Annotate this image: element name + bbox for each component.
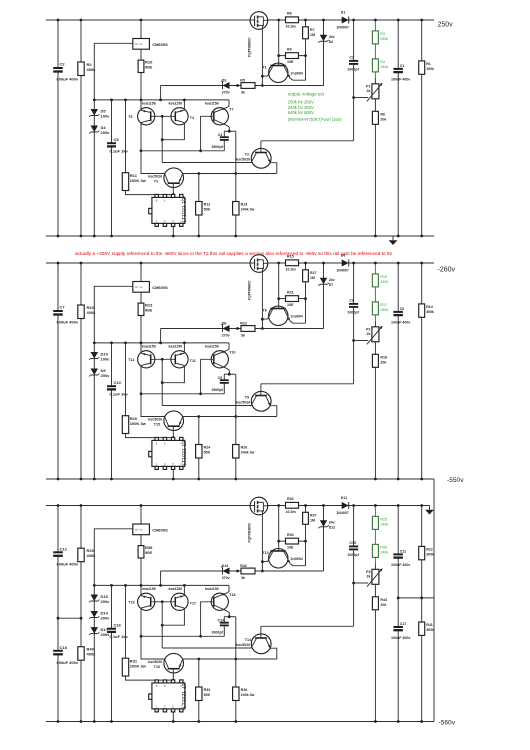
svg-text:50K: 50K bbox=[204, 693, 211, 697]
capacitor C12 600uF 400v bbox=[57, 506, 59, 722]
svg-text:100uF 400v: 100uF 400v bbox=[391, 563, 410, 567]
wire top rail bbox=[46, 262, 434, 264]
ic U2 LT1021-10 voltage reference bbox=[172, 469, 174, 479]
svg-text:R22: R22 bbox=[240, 322, 247, 326]
wire T4 emitter bbox=[183, 343, 185, 353]
svg-text:T2: T2 bbox=[245, 153, 249, 157]
svg-text:T15: T15 bbox=[154, 423, 160, 427]
svg-text:300k: 300k bbox=[426, 628, 434, 632]
transistor T2 ksc5026 error amp bbox=[251, 148, 271, 168]
transistor T8 2n3904 gate clamp bbox=[269, 306, 288, 325]
wire feedback to T2 base bbox=[261, 383, 354, 385]
zener diode D7 24v bbox=[323, 263, 325, 329]
wire emitter supply rail bbox=[94, 584, 229, 586]
svg-text:20k: 20k bbox=[380, 603, 386, 607]
svg-text:240k 3w: 240k 3w bbox=[241, 693, 255, 697]
wire T7 emitter bbox=[227, 585, 229, 592]
svg-text:3900pf: 3900pf bbox=[212, 145, 224, 149]
resistor R21 10E bbox=[279, 298, 306, 300]
svg-text:-260v: -260v bbox=[438, 267, 456, 274]
resistor R22 3k bbox=[241, 326, 255, 332]
wire CM600 input bbox=[94, 529, 133, 586]
wire error line bbox=[162, 162, 251, 164]
svg-text:100K 3w: 100K 3w bbox=[130, 421, 147, 426]
svg-text:R9: R9 bbox=[287, 48, 292, 52]
zener diode D10 100v bbox=[93, 343, 95, 479]
svg-text:1M: 1M bbox=[310, 519, 315, 523]
wire R13 column upper bbox=[235, 617, 237, 687]
capacitor C3 1000pf bbox=[353, 20, 355, 61]
wire T4 base-collector tie bbox=[162, 123, 184, 140]
svg-text:LT1021-10: LT1021-10 bbox=[182, 198, 188, 223]
wire source down bbox=[261, 511, 263, 571]
svg-text:3k: 3k bbox=[241, 576, 245, 580]
svg-text:(R8+R9+R7)/(R7)*vref (10v): (R8+R9+R7)/(R7)*vref (10v) bbox=[288, 117, 342, 122]
svg-text:10.3m: 10.3m bbox=[286, 25, 296, 29]
wire T7 base bbox=[201, 602, 214, 637]
capacitor C2 600uF 400v bbox=[57, 20, 59, 236]
svg-text:1N4007: 1N4007 bbox=[336, 26, 349, 30]
capacitor C5 0.1uF 1kv bbox=[111, 100, 113, 236]
svg-text:250v: 250v bbox=[438, 21, 454, 28]
wire emitter return line bbox=[183, 658, 277, 660]
svg-text:ksc5026: ksc5026 bbox=[148, 660, 162, 664]
transistor T14 ksc5026 error amp bbox=[251, 634, 271, 654]
wire output sense corner bbox=[160, 329, 162, 343]
svg-text:1N4007: 1N4007 bbox=[336, 511, 349, 515]
svg-text:T4: T4 bbox=[190, 116, 194, 120]
svg-text:100v: 100v bbox=[101, 357, 111, 362]
svg-text:300k: 300k bbox=[426, 310, 434, 314]
wire error line bbox=[162, 647, 251, 649]
svg-text:R13: R13 bbox=[241, 203, 248, 207]
svg-text:CM600S: CM600S bbox=[152, 285, 168, 290]
wire source down bbox=[261, 25, 263, 85]
svg-text:3900pf: 3900pf bbox=[212, 388, 224, 392]
wire top rail bbox=[46, 19, 434, 21]
ground bbox=[429, 506, 431, 510]
resistor R34 10E bbox=[279, 540, 306, 542]
svg-text:200v: 200v bbox=[101, 373, 111, 378]
svg-text:R27: R27 bbox=[310, 271, 317, 275]
svg-text:R22: R22 bbox=[426, 548, 433, 552]
svg-text:T11: T11 bbox=[190, 359, 196, 363]
svg-text:output voltage set: output voltage set bbox=[288, 92, 325, 97]
svg-text:540k for 560V: 540k for 560V bbox=[288, 110, 314, 115]
wire base node down to error line bbox=[161, 359, 163, 405]
svg-text:T13: T13 bbox=[262, 551, 268, 555]
resistor R19 240k set bbox=[374, 263, 376, 274]
mosfet M1 FQPF8N80C bbox=[250, 12, 268, 30]
wire T6/T4 base tie bbox=[151, 358, 176, 360]
svg-text:240k: 240k bbox=[380, 65, 388, 69]
wire emitter return line bbox=[183, 416, 277, 418]
svg-text:C16: C16 bbox=[114, 623, 122, 628]
svg-text:240k 3w: 240k 3w bbox=[241, 208, 255, 212]
transistor T11 ksa1156 bbox=[171, 351, 188, 368]
svg-text:24v: 24v bbox=[329, 278, 335, 282]
svg-text:C2: C2 bbox=[60, 61, 66, 66]
wire CM600 input bbox=[94, 43, 133, 100]
svg-text:Vin−Vo: Vin−Vo bbox=[135, 529, 143, 532]
resistor R36 240k 3w bbox=[233, 687, 239, 701]
svg-text:Vin−Vo: Vin−Vo bbox=[135, 286, 143, 289]
svg-text:240k for 250V: 240k for 250V bbox=[288, 105, 314, 110]
svg-text:R8: R8 bbox=[287, 12, 292, 16]
resistor R30 240k set bbox=[374, 529, 376, 544]
svg-text:T9: T9 bbox=[245, 396, 249, 400]
resistor R38 90E bbox=[140, 535, 142, 586]
svg-text:T3: T3 bbox=[154, 180, 158, 184]
diode D1 1N4007 bbox=[342, 17, 349, 24]
svg-text:T19: T19 bbox=[128, 601, 134, 605]
transistor T3 ksc5026 bbox=[164, 168, 184, 188]
capacitor C14 3900pf bbox=[223, 617, 225, 623]
svg-text:C3: C3 bbox=[349, 56, 354, 60]
svg-text:-560v: -560v bbox=[439, 720, 456, 727]
svg-text:240k: 240k bbox=[380, 280, 388, 284]
svg-text:C1: C1 bbox=[400, 64, 405, 68]
svg-text:C6: C6 bbox=[400, 307, 405, 311]
svg-text:ksa1156: ksa1156 bbox=[169, 101, 183, 105]
svg-text:-550v: -550v bbox=[447, 477, 464, 484]
wire base node down to error line bbox=[161, 602, 163, 648]
svg-text:270v: 270v bbox=[222, 91, 230, 95]
transistor T15 ksc5026 bbox=[164, 411, 184, 431]
svg-text:FQPF8N80C: FQPF8N80C bbox=[247, 522, 251, 542]
svg-text:FQPF8N80C: FQPF8N80C bbox=[247, 37, 251, 57]
transistor T9 ksc5026 error amp bbox=[251, 391, 271, 411]
wire error line bbox=[162, 405, 251, 407]
svg-text:600uF 400v: 600uF 400v bbox=[57, 562, 79, 567]
resistor R5 3k bbox=[241, 83, 255, 89]
capacitor C16 0.1uF 1kv bbox=[111, 585, 113, 721]
resistor R24 50K bbox=[198, 417, 200, 445]
wire R13 column upper bbox=[235, 131, 237, 201]
resistor R33 50K bbox=[198, 659, 200, 687]
svg-text:R17: R17 bbox=[380, 303, 387, 307]
resistor R8 10.3m bbox=[286, 17, 299, 23]
svg-text:3900pf: 3900pf bbox=[212, 630, 224, 634]
svg-text:D8: D8 bbox=[222, 322, 227, 326]
wire right divider midpoint to -550v bus bbox=[398, 597, 434, 599]
svg-text:C11: C11 bbox=[400, 550, 406, 554]
wire T6 collector to T3 base bbox=[141, 366, 165, 417]
svg-text:100K 3w: 100K 3w bbox=[130, 178, 147, 183]
wire emitter supply rail bbox=[94, 99, 229, 101]
wire R11 to reference bbox=[126, 191, 174, 195]
svg-text:10E: 10E bbox=[287, 546, 294, 550]
transistor T7 ksa1156 bbox=[211, 108, 228, 125]
svg-text:CM600S: CM600S bbox=[152, 42, 168, 47]
svg-text:ksa1156: ksa1156 bbox=[205, 587, 219, 591]
capacitor C15 1000pf bbox=[353, 506, 355, 547]
svg-text:D6: D6 bbox=[341, 254, 346, 258]
svg-text:200v: 200v bbox=[101, 616, 111, 621]
wire T6 collector to T3 base bbox=[141, 123, 165, 174]
resistor R43 20k bbox=[374, 584, 376, 597]
svg-text:R6: R6 bbox=[380, 112, 385, 116]
wire T7 base line bbox=[141, 635, 224, 637]
wire output sense corner bbox=[160, 571, 162, 585]
transistor T19 ksa1156 bbox=[140, 585, 142, 596]
svg-text:R42: R42 bbox=[240, 564, 247, 568]
resistor R22 300k bbox=[421, 506, 423, 722]
resistor R12 50K bbox=[198, 174, 200, 202]
resistor R11 100K 3w bbox=[125, 100, 127, 173]
wire T4 emitter bbox=[183, 100, 185, 110]
svg-text:3k: 3k bbox=[241, 91, 245, 95]
svg-text:100v: 100v bbox=[101, 114, 111, 119]
capacitor C17 100uF 400v bbox=[393, 627, 404, 630]
svg-text:D7: D7 bbox=[329, 283, 334, 287]
svg-text:2n3904: 2n3904 bbox=[291, 557, 303, 561]
svg-text:FQPF8N80C: FQPF8N80C bbox=[247, 280, 251, 300]
wire T7 base line bbox=[141, 393, 224, 395]
svg-text:2n3904: 2n3904 bbox=[291, 71, 303, 75]
svg-text:100uF 400v: 100uF 400v bbox=[391, 78, 410, 82]
ic U3 LT1021-10 voltage reference bbox=[172, 712, 174, 722]
wire T7 collector bbox=[227, 611, 230, 617]
capacitor C9 3900pf bbox=[223, 374, 225, 380]
svg-text:R36: R36 bbox=[241, 688, 248, 692]
svg-text:ksc5026: ksc5026 bbox=[236, 157, 250, 161]
resistor R26 240k 3w bbox=[233, 445, 239, 459]
wire CM600 input bbox=[94, 286, 133, 343]
svg-text:Vin−Vo: Vin−Vo bbox=[135, 43, 143, 46]
svg-text:270v: 270v bbox=[222, 334, 230, 338]
svg-text:10.3m: 10.3m bbox=[286, 510, 296, 514]
svg-text:T1: T1 bbox=[262, 65, 266, 69]
svg-text:100uF 400v: 100uF 400v bbox=[391, 636, 410, 640]
svg-text:R43: R43 bbox=[380, 598, 387, 602]
svg-text:P1: P1 bbox=[366, 84, 370, 88]
wire feedback to T2 base bbox=[261, 140, 354, 142]
resistor R25 240k set bbox=[374, 506, 376, 517]
wire source down bbox=[261, 268, 263, 328]
svg-text:2k: 2k bbox=[367, 332, 371, 336]
svg-text:LT1021-10: LT1021-10 bbox=[182, 441, 188, 466]
svg-text:D2: D2 bbox=[329, 40, 334, 44]
wire R11 to reference bbox=[126, 676, 174, 680]
svg-text:C5: C5 bbox=[114, 137, 120, 142]
svg-text:250k for 250V: 250k for 250V bbox=[288, 99, 314, 104]
resistor R29 400k bbox=[80, 506, 82, 722]
svg-text:R4: R4 bbox=[380, 60, 385, 64]
svg-text:T17: T17 bbox=[190, 602, 196, 606]
resistor R14 300k bbox=[421, 263, 423, 479]
svg-text:R30: R30 bbox=[380, 546, 387, 550]
svg-text:T7: T7 bbox=[229, 108, 233, 112]
svg-text:R24: R24 bbox=[204, 446, 211, 450]
svg-text:T14: T14 bbox=[245, 638, 251, 642]
svg-text:R12: R12 bbox=[204, 203, 211, 207]
capacitor C18 600uF 400v bbox=[53, 651, 64, 655]
svg-text:T8: T8 bbox=[262, 308, 266, 312]
svg-text:50K: 50K bbox=[204, 208, 211, 212]
wire bottom rail bbox=[46, 478, 434, 480]
svg-text:2k: 2k bbox=[367, 575, 371, 579]
svg-text:R41: R41 bbox=[426, 623, 433, 627]
resistor R10 90E bbox=[140, 49, 142, 100]
transistor T12 ksa1156 bbox=[140, 343, 142, 354]
resistor R3 240k set bbox=[374, 20, 376, 31]
resistor R13 240k 3w bbox=[233, 202, 239, 216]
svg-text:240k: 240k bbox=[380, 551, 388, 555]
svg-text:D13: D13 bbox=[222, 564, 229, 568]
wire compensation node bbox=[224, 130, 236, 132]
regulator module U3 CM600S bbox=[140, 506, 142, 525]
zener diode D3 270v bbox=[161, 85, 324, 87]
svg-text:ksa1156: ksa1156 bbox=[169, 344, 183, 348]
wire emitter supply rail bbox=[94, 342, 229, 344]
svg-text:C9: C9 bbox=[218, 376, 223, 380]
resistor R17 240k set bbox=[374, 287, 376, 302]
mosfet M2 FQPF8N80C bbox=[250, 255, 268, 273]
svg-text:600uF 400v: 600uF 400v bbox=[57, 320, 79, 325]
wire T6 collector to T3 base bbox=[141, 608, 165, 659]
zener diode D2 24v bbox=[323, 20, 325, 86]
svg-text:R1: R1 bbox=[426, 62, 431, 66]
svg-text:1N4007: 1N4007 bbox=[336, 269, 349, 273]
wire -550v bus to section3 divider midpoint bbox=[433, 479, 435, 722]
resistor R6 20k bbox=[374, 99, 376, 112]
svg-text:C10: C10 bbox=[114, 380, 122, 385]
wire output sense corner bbox=[160, 86, 162, 100]
svg-text:ksa1156: ksa1156 bbox=[142, 101, 156, 105]
transistor T1 2n3904 gate clamp bbox=[269, 63, 288, 82]
transistor T18 ksa1156 bbox=[211, 593, 228, 610]
zener diode D16 200v bbox=[91, 627, 99, 634]
resistor R23 90E bbox=[140, 292, 142, 343]
svg-text:20k: 20k bbox=[380, 360, 386, 364]
svg-text:R14: R14 bbox=[426, 305, 433, 309]
svg-text:600uF 400v: 600uF 400v bbox=[57, 660, 79, 665]
svg-text:P2: P2 bbox=[366, 327, 370, 331]
capacitor C8 1000pf bbox=[353, 263, 355, 304]
svg-text:T12: T12 bbox=[128, 358, 134, 362]
wire T7 emitter bbox=[227, 100, 229, 107]
wire wiper bbox=[354, 340, 369, 342]
svg-text:C7: C7 bbox=[60, 304, 66, 309]
svg-text:ksc5026: ksc5026 bbox=[236, 400, 250, 404]
resistor R7 1M bbox=[305, 20, 307, 27]
resistor R37 1M bbox=[305, 506, 307, 513]
svg-text:LT1021-10: LT1021-10 bbox=[182, 683, 188, 708]
svg-text:R26: R26 bbox=[241, 446, 248, 450]
svg-text:R18: R18 bbox=[380, 355, 387, 359]
wire wiper bbox=[354, 582, 369, 584]
svg-text:300k: 300k bbox=[426, 553, 434, 557]
svg-text:1M: 1M bbox=[310, 276, 315, 280]
wire T7 base line bbox=[141, 150, 224, 152]
potentiometer P2 2k bbox=[374, 315, 376, 321]
svg-text:ksa1156: ksa1156 bbox=[169, 587, 183, 591]
regulator module U2 CM600S bbox=[140, 263, 142, 282]
transistor T10 ksa1156 bbox=[211, 351, 228, 368]
svg-text:100k: 100k bbox=[426, 67, 434, 71]
resistor R31 100K 3w bbox=[125, 585, 127, 658]
svg-text:T10: T10 bbox=[229, 351, 235, 355]
mosfet M3 FQPF8N80C bbox=[250, 497, 268, 515]
svg-text:100uF 400v: 100uF 400v bbox=[391, 321, 410, 325]
potentiometer P1 2k bbox=[374, 72, 376, 78]
svg-text:10E: 10E bbox=[287, 303, 294, 307]
svg-text:24v: 24v bbox=[329, 35, 335, 39]
svg-text:D1: D1 bbox=[341, 11, 346, 15]
svg-text:C4: C4 bbox=[218, 133, 223, 137]
svg-text:240k 3w: 240k 3w bbox=[241, 451, 255, 455]
wire T7 base bbox=[201, 359, 214, 394]
resistor R20 100K 3w bbox=[125, 343, 127, 416]
svg-text:R5: R5 bbox=[240, 79, 245, 83]
svg-text:D3: D3 bbox=[222, 79, 227, 83]
wire compensation node bbox=[224, 373, 236, 375]
resistor R41 300k bbox=[419, 622, 425, 635]
zener diode D13 270v bbox=[161, 570, 324, 572]
svg-text:C18: C18 bbox=[60, 645, 68, 650]
svg-text:R7: R7 bbox=[310, 28, 315, 32]
wire T7 base bbox=[201, 116, 214, 151]
wire divider midpoint tie bbox=[58, 617, 81, 619]
capacitor C1 100uF 400v bbox=[397, 20, 399, 236]
wire wiper bbox=[354, 97, 369, 99]
svg-text:R34: R34 bbox=[287, 533, 294, 537]
resistor R1 100k bbox=[421, 20, 423, 236]
svg-text:1M: 1M bbox=[310, 33, 315, 37]
capacitor C4 3900pf bbox=[223, 131, 225, 137]
resistor R40 400k bbox=[78, 647, 84, 661]
zener diode D15 200v bbox=[93, 585, 95, 721]
svg-text:C17: C17 bbox=[400, 622, 407, 626]
svg-text:3k: 3k bbox=[241, 334, 245, 338]
svg-text:R25: R25 bbox=[380, 518, 387, 522]
zener diode D14 200v bbox=[91, 611, 99, 618]
zener diode D8 270v bbox=[161, 328, 324, 330]
wire feedback to T2 base bbox=[261, 625, 354, 627]
svg-text:P3: P3 bbox=[366, 570, 370, 574]
svg-text:D12: D12 bbox=[329, 526, 336, 530]
regulator module U1 CM600S bbox=[140, 20, 142, 39]
wire divider tap down to T2 base line bbox=[353, 64, 355, 141]
svg-text:600uF 400v: 600uF 400v bbox=[57, 77, 79, 82]
svg-text:100K 3w: 100K 3w bbox=[130, 664, 147, 669]
capacitor C7 600uF 400v bbox=[57, 263, 59, 479]
resistor R4 240k set bbox=[374, 44, 376, 59]
svg-text:CM600S: CM600S bbox=[152, 528, 168, 533]
svg-text:90E: 90E bbox=[145, 65, 152, 70]
wire bottom rail bbox=[46, 235, 434, 237]
diode D11 1N4007 bbox=[342, 502, 349, 509]
capacitor C6 100uF 400v bbox=[397, 263, 399, 479]
svg-text:ksc5026: ksc5026 bbox=[236, 643, 250, 647]
transistor T4 ksa1156 bbox=[171, 108, 188, 125]
svg-text:R3: R3 bbox=[380, 32, 385, 36]
wire R11 to reference bbox=[126, 434, 174, 438]
svg-text:R19: R19 bbox=[380, 275, 387, 279]
transistor T6 ksa1156 bbox=[140, 100, 142, 111]
wire divider tap down to T2 base line bbox=[353, 307, 355, 384]
zener diode D5 100v bbox=[93, 100, 95, 236]
resistor R42 3k bbox=[241, 568, 255, 574]
zener diode D12 24v bbox=[323, 506, 325, 572]
svg-text:ksc5026: ksc5026 bbox=[148, 175, 162, 179]
wire T6/T4 base tie bbox=[151, 115, 176, 117]
wire emitter return line bbox=[183, 173, 277, 175]
svg-text:ksa1156: ksa1156 bbox=[205, 344, 219, 348]
svg-text:R37: R37 bbox=[310, 514, 317, 518]
svg-text:240k: 240k bbox=[380, 523, 388, 527]
